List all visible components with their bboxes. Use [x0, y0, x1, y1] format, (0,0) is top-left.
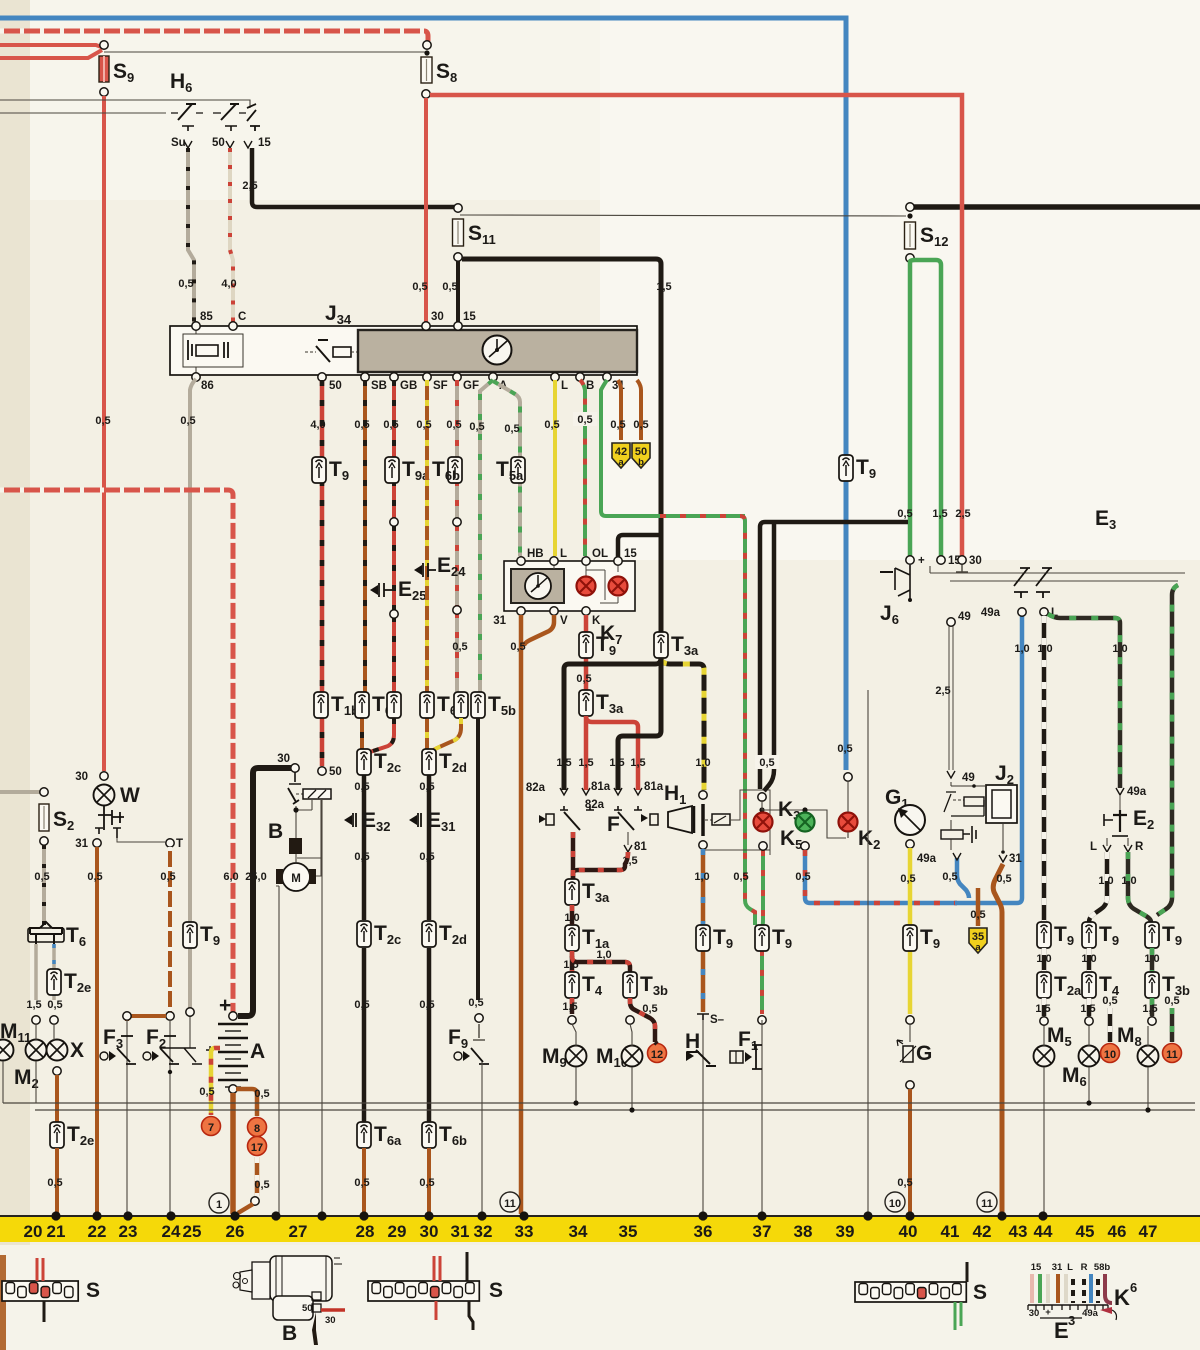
wire gauge 0,5 colA2 — [504, 423, 519, 435]
label E31 — [427, 809, 455, 834]
label T3a pin2 — [596, 691, 624, 716]
wire thin starter left ground — [276, 886, 279, 1214]
label T1b — [331, 693, 359, 718]
svg-text:30: 30 — [969, 555, 982, 567]
battery A plates — [206, 1024, 248, 1087]
wire gauge 1,0 right b — [1081, 953, 1096, 965]
ground bar junction dot 482 — [477, 1211, 486, 1220]
terminal 49a E3 — [1018, 608, 1026, 616]
wire black/red tail to disc 12 — [655, 1042, 657, 1044]
label S left connector — [86, 1279, 100, 1302]
wire gauge 1,5 green right — [932, 508, 947, 520]
svg-text:8: 8 — [254, 1123, 260, 1135]
wire brown/white below marker 17 — [255, 1157, 260, 1196]
label T9 86 wire — [200, 923, 220, 948]
svg-text:0,5: 0,5 — [354, 851, 369, 863]
wire thin H6 feed upper — [0, 100, 250, 108]
terminal label plus battery — [219, 994, 231, 1017]
connector K6 arrow — [1100, 1307, 1117, 1320]
svg-text:0,5: 0,5 — [1102, 995, 1117, 1007]
wire gauge 0,5 battery tap — [199, 1086, 214, 1098]
terminal 30 instrument — [422, 322, 430, 330]
wire grey T6 leg left — [34, 944, 38, 1000]
ground bar junction dot 322 — [317, 1211, 326, 1220]
wire white/red 50 to J34 C — [230, 148, 233, 324]
wire blue/red K5 to 49a — [805, 850, 957, 903]
svg-text:86: 86 — [201, 380, 214, 392]
wire gauge 0,5 T2e tail — [47, 1177, 62, 1189]
svg-text:0,5: 0,5 — [178, 278, 193, 290]
switch F left contact — [539, 806, 594, 830]
wire grey/green A left branch — [480, 380, 493, 698]
wire black/white T9-T2a — [1042, 948, 1047, 972]
wire gauge 0,5 31 J2 — [996, 873, 1011, 885]
wire black/white L-E3 column — [1042, 616, 1047, 922]
terminal L instrument bottom — [551, 373, 559, 381]
svg-text:0,5: 0,5 — [354, 781, 369, 793]
terminal label 15 instr — [463, 311, 476, 323]
label S8 — [436, 60, 457, 85]
connector T4 right — [1082, 972, 1096, 998]
svg-text:82a: 82a — [526, 782, 546, 794]
ground bar junction dot 1002 — [997, 1211, 1006, 1220]
terminal label 82a left — [526, 782, 546, 794]
ground bar junction dot 171 — [166, 1211, 175, 1220]
svg-text:21: 21 — [47, 1222, 66, 1241]
label T9 G1 — [920, 926, 940, 951]
terminal below S11 — [454, 253, 462, 261]
svg-text:0,5: 0,5 — [469, 421, 484, 433]
junction node above S9 — [100, 41, 108, 49]
wire brown X lamp down — [55, 1075, 59, 1122]
svg-text:0,5: 0,5 — [383, 419, 398, 431]
svg-text:L: L — [561, 380, 568, 392]
svg-text:0,5: 0,5 — [419, 999, 434, 1011]
svg-text:81a: 81a — [591, 781, 611, 793]
terminal label L E3 — [1051, 607, 1058, 619]
label J34 — [325, 302, 352, 327]
wire gauge 0,5 stub11 — [1164, 995, 1179, 1007]
connector T9 on 86 wire — [183, 922, 197, 948]
lamp symbol E25 — [370, 583, 392, 597]
ground bar junction dot 235 — [230, 1211, 239, 1220]
svg-text:0,5: 0,5 — [897, 1177, 912, 1189]
connector T2e upper — [47, 969, 61, 995]
svg-text:11: 11 — [1166, 1049, 1178, 1061]
wire brown below T6a bottom — [362, 1148, 366, 1214]
wire red/white striped trunk top — [0, 31, 428, 41]
lamp M5 — [1034, 1046, 1055, 1067]
connector K6 comb — [1028, 1305, 1108, 1318]
terminal A instrument bottom — [489, 373, 497, 381]
terminal L E3 — [1040, 608, 1048, 616]
svg-text:49: 49 — [958, 611, 971, 623]
label T2c upper — [374, 750, 401, 775]
terminal 49a E2 arrow — [1116, 786, 1147, 798]
junction dot ground 632 — [629, 1107, 634, 1112]
wire green/red horizontal to K area — [660, 516, 755, 925]
marker disc 11 orange — [1163, 1044, 1182, 1063]
terminal label K K7 — [592, 615, 601, 627]
terminal K7 V — [550, 607, 558, 615]
svg-text:2,5: 2,5 — [935, 685, 950, 697]
label T2c lower — [374, 922, 401, 947]
connector T3b on M10 wire — [623, 972, 637, 998]
terminal 50 starter switch — [318, 767, 326, 775]
connector T3b right — [1145, 972, 1159, 998]
svg-text:X: X — [70, 1039, 84, 1062]
ground bus line — [0, 1215, 1200, 1217]
label K3 — [778, 798, 800, 823]
label E25 — [398, 578, 426, 603]
ground collector line upper — [3, 1102, 1195, 1104]
svg-text:1,5: 1,5 — [1080, 1003, 1095, 1015]
wire gauge 0,5 below T5b — [468, 997, 483, 1009]
connector T9 right b — [1082, 922, 1096, 948]
lamp M8 — [1138, 1046, 1159, 1067]
wire blue 49a link to E3 — [955, 616, 1022, 903]
ignition coil symbol below W — [95, 806, 124, 838]
terminal GF lower gap — [453, 606, 461, 614]
terminal 49 top — [947, 618, 955, 626]
svg-text:0,5: 0,5 — [416, 419, 431, 431]
svg-text:L: L — [1067, 1262, 1073, 1273]
marker disc 10 orange — [1101, 1044, 1120, 1063]
arrow mark Su — [184, 141, 192, 148]
svg-text:7: 7 — [208, 1122, 214, 1134]
wire thin K lamp bus — [762, 800, 848, 838]
junction dot below S12 node — [907, 213, 912, 218]
wire brown K7 V merge — [524, 615, 554, 646]
connector T3a pin3 — [565, 879, 579, 905]
junction dot ground 1148 — [1145, 1107, 1150, 1112]
wire thin switch to starter B — [296, 800, 312, 838]
wire thin M10 ground — [630, 1024, 632, 1110]
svg-text:1,5: 1,5 — [932, 508, 947, 520]
switch H6 contact 2 — [213, 104, 246, 131]
wire gauge 1,5 t1a-t4 — [563, 959, 578, 971]
wire gauge 0,5 S11 drop — [442, 281, 457, 293]
ground bar junction dot 364 — [359, 1211, 368, 1220]
fuel sender G — [897, 1040, 932, 1065]
wire gauge 1,0 t3a-t1a — [564, 912, 579, 924]
label S2 — [53, 808, 74, 833]
label T2a right — [1054, 973, 1082, 998]
label K7 — [600, 622, 622, 647]
junction battery minus — [229, 1085, 237, 1093]
wire gauge 4,0 col50 — [310, 419, 325, 431]
svg-text:25,0: 25,0 — [245, 871, 266, 883]
wire gauge 0,5 SB low1 — [354, 781, 369, 793]
svg-text:30: 30 — [277, 753, 290, 765]
lamp M left b X — [47, 1040, 68, 1061]
svg-text:0,5: 0,5 — [254, 1179, 269, 1191]
label K6 — [1114, 1280, 1137, 1310]
wire black below connector S left — [43, 1301, 46, 1322]
svg-text:1,5: 1,5 — [609, 757, 624, 769]
svg-text:0,5: 0,5 — [419, 781, 434, 793]
wire gauge 25,0 black — [245, 871, 266, 883]
label J6 — [880, 602, 899, 627]
label T9 K wire — [596, 633, 616, 658]
ground bar junction dot 868 — [863, 1211, 872, 1220]
label T9a — [402, 458, 430, 483]
label E32 — [362, 809, 390, 834]
wire brown link T to F3 — [127, 1016, 166, 1021]
wire yellow/red battery tap — [211, 1048, 220, 1115]
label E3 — [1095, 507, 1116, 532]
wire gauge 6,0 battery feed — [223, 871, 238, 883]
wire gauge 1,5 below T2a — [1035, 1003, 1050, 1015]
label T9 blue trunk — [856, 456, 876, 481]
label T9 on 50 wire — [329, 458, 349, 483]
instrument cluster grey box — [358, 330, 637, 372]
svg-text:0,5: 0,5 — [468, 997, 483, 1009]
label T6a — [372, 693, 400, 718]
svg-text:49a: 49a — [1082, 1308, 1099, 1319]
wire gauge 1,0 horn lower — [694, 871, 709, 883]
fuse S12 — [905, 222, 916, 249]
relay J34 internals — [183, 326, 243, 375]
wire brown/white T down — [168, 847, 172, 1012]
wire thin 49 feed lines — [949, 626, 953, 770]
wire gauge 1,5 below T4 — [562, 1001, 577, 1013]
wire thin E3 bus lower — [950, 580, 1178, 582]
svg-text:1,0: 1,0 — [695, 757, 710, 769]
label S9 — [113, 60, 134, 85]
lamp M10 — [622, 1046, 643, 1067]
svg-text:L: L — [560, 548, 567, 560]
wire gauge 0,5 49a drop — [942, 871, 957, 883]
svg-text:1,0: 1,0 — [1014, 643, 1029, 655]
svg-text:3: 3 — [1068, 1313, 1075, 1328]
label T2d upper — [439, 750, 467, 775]
wire gauge 0,5 colB boxed — [573, 412, 597, 426]
wire gauge 1,5 81 out — [622, 855, 637, 867]
label T6b upper — [432, 458, 460, 483]
svg-text:0,5: 0,5 — [642, 1003, 657, 1015]
svg-text:12: 12 — [651, 1049, 663, 1061]
svg-text:0,5: 0,5 — [897, 508, 912, 520]
starter B terminal 50 red lead — [302, 1303, 345, 1314]
lamp K3 — [754, 813, 773, 832]
wire thin K2 top link — [847, 781, 849, 812]
lamp symbol E24 — [414, 563, 436, 577]
ground bar junction dot 429 — [424, 1211, 433, 1220]
connector T6 double — [28, 922, 64, 944]
label T6b mid — [437, 693, 465, 718]
label G1 — [885, 786, 909, 811]
terminal label C — [238, 311, 246, 323]
junction S2 top — [40, 788, 48, 796]
label T9 horn — [713, 926, 733, 951]
svg-text:6: 6 — [1130, 1280, 1137, 1295]
wire green/black E2 R column — [1128, 852, 1151, 922]
terminal L E2 — [1090, 838, 1111, 853]
connector T6a pin2 — [387, 692, 401, 718]
svg-text:49: 49 — [962, 772, 975, 784]
label S right connector — [973, 1281, 987, 1304]
terminal H1 bottom — [699, 841, 707, 849]
svg-text:31: 31 — [1052, 1262, 1063, 1273]
connector T9 G1 wire — [903, 925, 917, 951]
wire gauge 0,5 G ground — [897, 1177, 912, 1189]
svg-text:W: W — [120, 784, 140, 807]
terminal label 30 instr — [431, 311, 444, 323]
wire brown/blue horn to S- — [701, 849, 706, 1012]
svg-text:0,5: 0,5 — [412, 281, 427, 293]
wire gauge 0,5 SF low2 — [419, 851, 434, 863]
wire thin E3 bus upper — [930, 566, 1185, 573]
svg-text:A: A — [250, 1040, 265, 1063]
wire gauge 0,5 below17 — [254, 1179, 269, 1191]
terminal 30 right — [958, 556, 966, 564]
connector T5a — [511, 457, 525, 483]
terminal label 15 right — [948, 555, 961, 567]
wire red/white battery positive feed — [0, 490, 233, 1012]
terminal label 50 bottom — [329, 380, 342, 392]
connector T1a — [565, 925, 579, 951]
terminal 86 instrument bottom — [192, 373, 200, 381]
wire gauge 0,5 green left — [897, 508, 912, 520]
connector T9 F1 wire — [755, 925, 769, 951]
terminal above M10 — [626, 1016, 634, 1024]
connector T3a pin2 — [579, 690, 593, 716]
terminal S- — [697, 1014, 725, 1026]
connector T6a bottom — [357, 1122, 371, 1148]
svg-text:1: 1 — [216, 1199, 222, 1211]
starter motor M — [276, 854, 316, 891]
wire brown G sender to ground bar — [908, 1089, 912, 1214]
connector S left — [2, 1281, 78, 1301]
wire black/yellow to horn H1 — [661, 660, 704, 790]
connector T9 blue trunk — [839, 455, 853, 481]
svg-text:b: b — [638, 457, 644, 468]
H1 bracket loop — [703, 790, 770, 855]
wire brown to marker 42a — [618, 380, 621, 440]
connector T6b bottom — [422, 1122, 436, 1148]
switch F output 81 — [624, 832, 647, 853]
svg-text:+: + — [1045, 1307, 1051, 1318]
svg-text:0,5: 0,5 — [576, 673, 591, 685]
svg-text:30: 30 — [325, 1315, 336, 1326]
terminal G1 bottom — [906, 840, 914, 848]
terminal label L bottom — [561, 380, 568, 392]
wire green/black stub to marker 11 — [1170, 1008, 1175, 1042]
wire thin M11 M lamp grounds — [3, 1024, 54, 1103]
svg-text:36: 36 — [694, 1222, 713, 1241]
svg-text:10: 10 — [1104, 1049, 1116, 1061]
svg-text:G: G — [916, 1042, 932, 1065]
junction dot K3 — [759, 807, 764, 812]
svg-text:0,5: 0,5 — [610, 419, 625, 431]
svg-text:50: 50 — [329, 766, 342, 778]
wire black/white below T2a — [1042, 998, 1047, 1016]
terminal below S8 — [422, 90, 430, 98]
wire red S8 down to instrument 30 — [424, 98, 428, 324]
svg-text:T: T — [176, 838, 183, 850]
terminal label SB bottom — [371, 380, 387, 392]
wire black SF lower — [427, 762, 432, 1103]
terminal K7 15 — [614, 557, 622, 565]
terminal above F1 — [758, 1016, 766, 1024]
terminal K2 top — [844, 773, 852, 781]
svg-text:L: L — [1090, 841, 1097, 853]
wire gauge 1,0 striped right — [1112, 643, 1127, 655]
wire gauge 1,5 81a left — [578, 757, 593, 769]
label T5b — [488, 693, 516, 718]
connector T2c lower — [357, 921, 371, 947]
label T4 M9 — [582, 973, 603, 998]
lamp K7 charge — [609, 577, 628, 596]
terminal label 30 right — [969, 555, 982, 567]
svg-text:0,5: 0,5 — [577, 414, 592, 426]
wire gauge 1,5 below T4 — [1080, 1003, 1095, 1015]
lamp symbol E31 — [409, 813, 421, 827]
svg-text:30: 30 — [431, 311, 444, 323]
connector T9a on GB wire — [385, 457, 399, 483]
lamp M9 — [566, 1046, 587, 1067]
junction node above S11 — [454, 204, 462, 212]
terminal label Su — [171, 137, 186, 149]
svg-text:58b: 58b — [1094, 1262, 1111, 1273]
wire brown SF merge — [431, 718, 461, 762]
svg-text:0,5: 0,5 — [942, 871, 957, 883]
svg-text:40: 40 — [899, 1222, 918, 1241]
wire brown 31 W down — [95, 847, 99, 1214]
K7 internal wiring — [554, 566, 618, 603]
wire black/white T9-T4 — [1087, 948, 1092, 972]
starter B terminal 30 lead — [312, 1312, 336, 1345]
marker 42a — [612, 443, 630, 468]
terminal 31 instrument bottom — [603, 373, 611, 381]
label T2d lower — [439, 922, 467, 947]
terminal above M8 — [1148, 1017, 1156, 1025]
svg-text:0,5: 0,5 — [354, 419, 369, 431]
svg-text:0,5: 0,5 — [759, 757, 774, 769]
wire thin M8 ground — [1147, 1026, 1149, 1110]
label T2e upper — [64, 970, 91, 995]
svg-text:0,5: 0,5 — [996, 873, 1011, 885]
svg-text:S: S — [489, 1279, 503, 1302]
terminal 31 J2 — [999, 853, 1022, 865]
svg-text:0,5: 0,5 — [504, 423, 519, 435]
terminal K3 bottom — [759, 842, 767, 850]
lamp W — [94, 785, 115, 806]
svg-text:V: V — [560, 615, 568, 627]
switch F1 — [730, 1028, 762, 1069]
label M5 — [1047, 1024, 1072, 1049]
wire black 30 trunk right edge — [910, 204, 1200, 210]
wire thin H6 feed lower — [0, 112, 166, 114]
wire black below connector S mid — [469, 1301, 473, 1330]
terminal label 50 starter — [329, 766, 342, 778]
wire gauge 1,0 E2 L — [1098, 875, 1113, 887]
wire brown/black SB column — [362, 380, 365, 752]
connector S right — [855, 1282, 966, 1302]
svg-text:50: 50 — [329, 380, 342, 392]
wire brown diagonal to ground bar — [238, 1204, 253, 1213]
junction dot ground 1089 — [1086, 1100, 1091, 1105]
terminal left lamp a — [32, 1016, 40, 1024]
wire gauge 1,0 right a — [1036, 953, 1051, 965]
wire gauge 1,5 82a right — [609, 757, 624, 769]
connector T9 right c — [1145, 922, 1159, 948]
lamp K2 — [839, 813, 858, 832]
svg-text:GB: GB — [400, 380, 417, 392]
svg-text:34: 34 — [569, 1222, 588, 1241]
svg-text:1,0: 1,0 — [1098, 875, 1113, 887]
